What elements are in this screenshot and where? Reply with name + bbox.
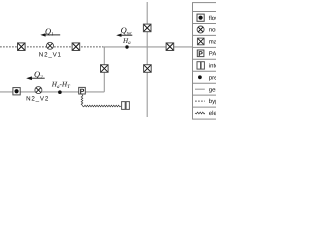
svg-text:N2_V2: N2_V2 xyxy=(26,95,49,102)
svg-text:pressure tap: pressure tap xyxy=(209,75,216,81)
svg-text:bypass line: bypass line xyxy=(209,98,216,105)
legend: interface symbol xyxy=(197,62,204,69)
legend: pneumatic valve symbol xyxy=(197,26,204,33)
interface box (signal conditioner) xyxy=(122,102,130,110)
pressure sensor P xyxy=(79,87,86,95)
legend: general line symbol xyxy=(195,88,205,90)
pneumatic valve N2_V2 xyxy=(35,87,42,94)
svg-text:P: P xyxy=(198,51,203,58)
flow meter FM (bottom line) xyxy=(13,88,20,95)
svg-text:manual valve: manual valve xyxy=(209,39,216,46)
node Ha (pressure tap on main line) xyxy=(125,45,128,48)
wire: top bypass line (dashed), left segment xyxy=(0,46,103,48)
flow arrow Q1 xyxy=(40,33,60,36)
wire: electrical wavy line from P sensor to interface xyxy=(81,95,121,107)
svg-text:interface: interface xyxy=(209,62,216,69)
legend separators xyxy=(193,11,253,13)
svg-text:flow meter: flow meter xyxy=(209,15,216,22)
legend box xyxy=(193,3,253,120)
legend: pressure tap symbol xyxy=(198,75,202,79)
wire: bottom line xyxy=(0,91,104,93)
svg-text:general line: general line xyxy=(209,86,216,93)
legend: electrical line symbol xyxy=(195,112,205,114)
legend: manual valve symbol xyxy=(197,38,204,45)
manual valve MV5 (vertical line 2 lower) xyxy=(144,65,152,73)
legend: bypass line symbol xyxy=(195,100,205,102)
manual valve MV6 (top line right) xyxy=(166,43,174,51)
flow arrow Qtot xyxy=(116,34,132,37)
pneumatic valve N2_V1 xyxy=(47,42,54,49)
wire: top main line (solid) from junction to legend xyxy=(103,46,193,48)
legend: flow meter symbol xyxy=(197,14,204,21)
svg-text:electrical line: electrical line xyxy=(209,110,216,117)
manual valve MV2 (top line mid) xyxy=(72,43,80,51)
node Ha-HT (pressure tap on bottom line) xyxy=(58,90,62,94)
svg-text:normally closed: normally closed xyxy=(209,27,216,34)
manual valve MV1 (top line left) xyxy=(18,43,26,51)
wire: vertical line 2 xyxy=(146,2,148,117)
flow arrow Q2 xyxy=(26,76,45,80)
svg-text:N2_V1: N2_V1 xyxy=(39,51,62,58)
svg-text:P: P xyxy=(80,88,85,95)
svg-text:PACE sensor: PACE sensor xyxy=(209,50,216,57)
manual valve MV3 (vertical line 2 top) xyxy=(143,24,151,32)
manual valve MV4 (vertical line 1) xyxy=(101,65,109,73)
wire: vertical line 1 xyxy=(103,47,105,92)
legend: pressure sensor symbol xyxy=(197,50,204,58)
